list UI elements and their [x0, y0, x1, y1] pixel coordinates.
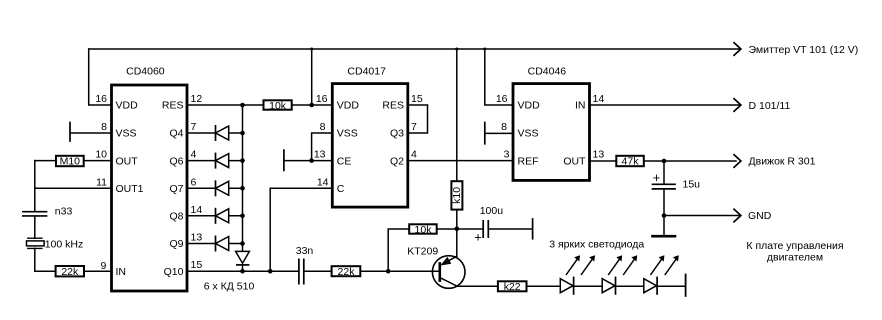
- svg-text:+: +: [474, 229, 482, 244]
- svg-text:Q2: Q2: [390, 155, 404, 167]
- svg-text:6: 6: [191, 176, 197, 188]
- svg-text:REF: REF: [518, 155, 539, 167]
- svg-text:3 ярких светодиода: 3 ярких светодиода: [549, 238, 644, 250]
- svg-text:10k: 10k: [269, 100, 287, 112]
- svg-text:14: 14: [317, 176, 329, 188]
- svg-text:VDD: VDD: [337, 100, 360, 112]
- svg-text:VSS: VSS: [337, 128, 358, 140]
- svg-text:OUT: OUT: [116, 155, 139, 167]
- svg-text:C: C: [337, 183, 345, 195]
- svg-text:13: 13: [314, 149, 326, 161]
- svg-text:7: 7: [191, 121, 197, 133]
- svg-text:7: 7: [411, 121, 417, 133]
- svg-text:+: +: [653, 170, 661, 185]
- svg-text:OUT1: OUT1: [116, 183, 144, 195]
- svg-text:CE: CE: [337, 155, 352, 167]
- svg-text:Движок R 301: Движок R 301: [749, 156, 816, 168]
- svg-text:M10: M10: [60, 156, 81, 168]
- svg-text:k10: k10: [451, 187, 463, 204]
- svg-text:12: 12: [191, 93, 203, 105]
- svg-text:11: 11: [96, 176, 107, 188]
- svg-text:Q10: Q10: [164, 266, 184, 278]
- svg-text:Q4: Q4: [169, 128, 183, 140]
- svg-text:100 kHz: 100 kHz: [45, 238, 84, 250]
- svg-text:100u: 100u: [480, 205, 504, 217]
- svg-text:KT209: KT209: [407, 245, 438, 257]
- svg-text:VSS: VSS: [116, 128, 137, 140]
- svg-text:Q8: Q8: [169, 211, 183, 223]
- svg-text:16: 16: [316, 93, 328, 105]
- svg-text:16: 16: [496, 93, 508, 105]
- svg-text:RES: RES: [382, 100, 404, 112]
- svg-text:Q6: Q6: [169, 155, 183, 167]
- svg-text:9: 9: [100, 260, 106, 272]
- svg-text:15u: 15u: [683, 178, 701, 190]
- svg-text:Q9: Q9: [169, 238, 183, 250]
- svg-text:Q7: Q7: [169, 183, 183, 195]
- svg-text:D 101/11: D 101/11: [749, 100, 791, 112]
- svg-text:VDD: VDD: [518, 100, 541, 112]
- svg-text:3: 3: [504, 149, 510, 161]
- svg-text:14: 14: [593, 93, 605, 105]
- svg-text:Q3: Q3: [390, 128, 404, 140]
- svg-text:14: 14: [191, 204, 203, 216]
- svg-text:IN: IN: [575, 100, 586, 112]
- svg-text:CD4046: CD4046: [528, 66, 567, 78]
- svg-text:4: 4: [411, 149, 417, 161]
- svg-text:k22: k22: [504, 281, 521, 293]
- svg-text:16: 16: [95, 93, 107, 105]
- svg-text:15: 15: [411, 93, 423, 105]
- svg-text:двигателем: двигателем: [767, 252, 823, 264]
- svg-text:RES: RES: [162, 100, 184, 112]
- svg-text:8: 8: [501, 121, 507, 133]
- svg-text:Эмиттер VT 101 (12 V): Эмиттер VT 101 (12 V): [749, 44, 859, 56]
- svg-text:VSS: VSS: [518, 128, 539, 140]
- svg-text:47k: 47k: [622, 156, 640, 168]
- svg-text:8: 8: [320, 121, 326, 133]
- svg-text:22k: 22k: [61, 266, 79, 278]
- svg-text:CD4060: CD4060: [126, 66, 165, 78]
- svg-text:IN: IN: [116, 266, 127, 278]
- svg-text:15: 15: [191, 259, 203, 271]
- svg-text:GND: GND: [748, 210, 772, 222]
- svg-text:10k: 10k: [415, 224, 433, 236]
- svg-text:8: 8: [101, 121, 107, 133]
- svg-text:33n: 33n: [296, 245, 314, 257]
- svg-text:n33: n33: [55, 206, 73, 218]
- svg-text:OUT: OUT: [563, 155, 586, 167]
- svg-text:22k: 22k: [338, 266, 356, 278]
- svg-text:6 х КД 510: 6 х КД 510: [204, 280, 255, 292]
- svg-text:10: 10: [95, 149, 107, 161]
- svg-text:К плате управления: К плате управления: [746, 240, 843, 252]
- svg-text:13: 13: [593, 149, 605, 161]
- svg-text:4: 4: [191, 149, 197, 161]
- svg-text:13: 13: [191, 232, 203, 244]
- svg-text:CD4017: CD4017: [347, 66, 386, 78]
- svg-text:VDD: VDD: [116, 100, 139, 112]
